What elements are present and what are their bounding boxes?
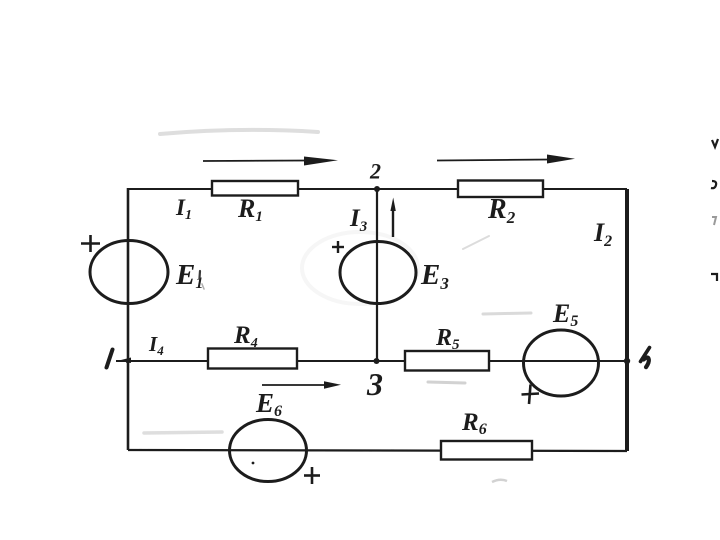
node 4 junction dot xyxy=(624,358,630,364)
cut-off glyph at right edge (second) xyxy=(711,181,716,188)
polarity plus of E5 xyxy=(522,385,540,405)
current arrow I2 above R2 xyxy=(437,155,575,164)
current arrow I1 above R1 xyxy=(203,157,338,166)
svg-text:2: 2 xyxy=(369,159,381,184)
scan smudge top streak xyxy=(160,130,318,134)
EMF source E3 xyxy=(340,242,416,304)
label node 4 (handwritten) xyxy=(641,348,650,362)
EMF source E5 xyxy=(524,330,599,396)
wire middle vertical (node 2 to node 3, through E3) xyxy=(376,189,378,361)
EMF source E6 xyxy=(230,420,307,482)
polarity plus of E1 xyxy=(81,235,100,252)
node 1 junction blob xyxy=(119,358,131,364)
current arrow I3 (upward, beside E3) xyxy=(390,198,395,238)
resistor R6 xyxy=(441,441,532,460)
scan smudge left of E5 label xyxy=(483,313,531,314)
node 3 junction dot xyxy=(374,358,380,364)
cut-off glyph at right edge (third) xyxy=(712,217,716,225)
scan smudge below R5 xyxy=(428,382,465,383)
node 2 junction dot xyxy=(374,186,380,192)
current arrow I4 below R4 xyxy=(262,381,341,389)
polarity plus of E3 xyxy=(332,241,344,253)
wire middle horizontal (node 1 to node 4, through E5) xyxy=(116,360,627,362)
resistor R4 xyxy=(208,349,297,369)
polarity plus of E6 xyxy=(304,467,320,484)
scan smudge diagonal right of E3 xyxy=(463,236,489,249)
scan fog between R1 and E3 xyxy=(302,232,418,304)
cut-off glyph at right edge (top) xyxy=(712,139,718,147)
scan smudge below R6 xyxy=(492,480,507,482)
dot inside E6 xyxy=(252,462,255,465)
resistor R1 xyxy=(212,181,298,196)
node 1 junction dot xyxy=(126,359,131,364)
stray mark right of E1 label xyxy=(198,271,201,278)
svg-text:3: 3 xyxy=(366,366,383,402)
wire top (node corner 128,189 to 627,189) xyxy=(128,188,627,190)
EMF source E1 xyxy=(90,241,168,304)
wire left vertical (through E1) xyxy=(127,188,130,450)
wire right vertical xyxy=(625,189,629,451)
wire bottom (through E6) xyxy=(128,450,627,451)
scan smudge left of E6 xyxy=(144,432,222,433)
cut-off glyph at right edge (fourth) xyxy=(711,274,717,281)
resistor R5 xyxy=(405,351,489,371)
label node 1 (handwritten slanted stroke) xyxy=(107,350,113,368)
resistor R2 xyxy=(458,181,543,198)
